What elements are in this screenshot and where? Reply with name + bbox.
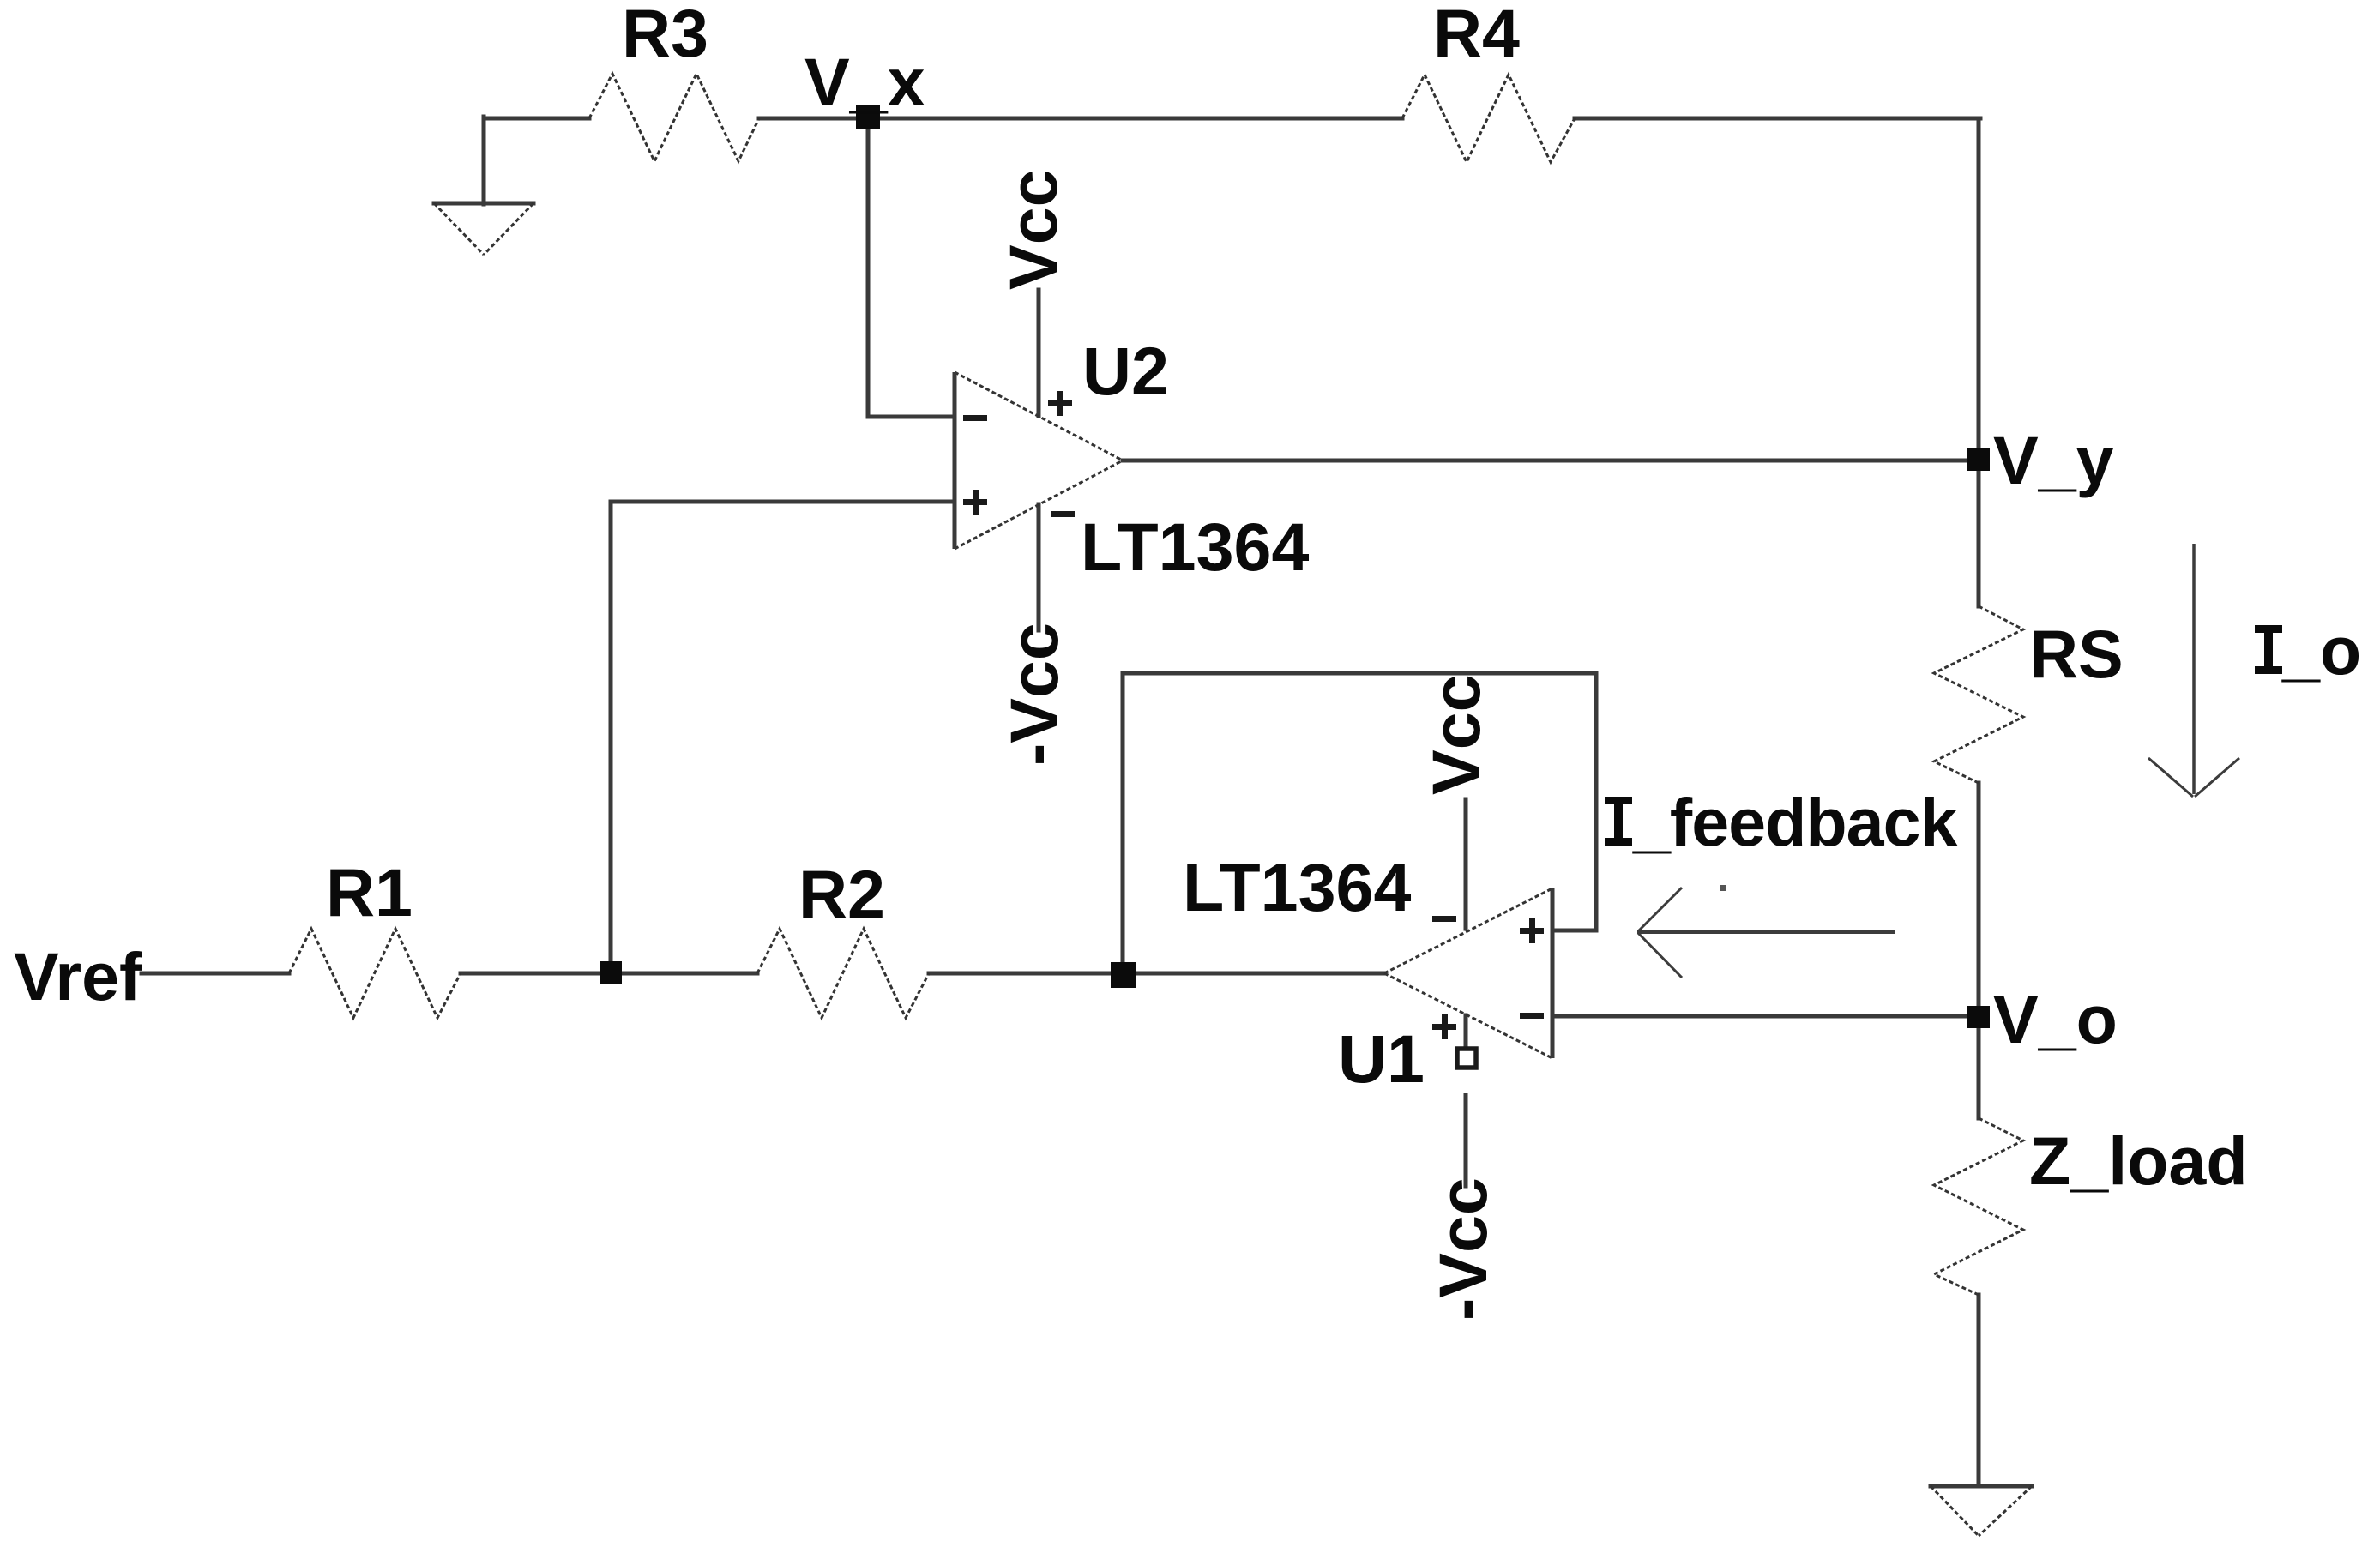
svg-text:V_o: V_o	[1993, 981, 2118, 1057]
svg-text:RS: RS	[2029, 616, 2124, 692]
svg-text:Z_load: Z_load	[2029, 1123, 2248, 1199]
svg-text:-Vcc: -Vcc	[1425, 1177, 1501, 1321]
svg-text:U2: U2	[1082, 333, 1169, 409]
svg-text:R4: R4	[1433, 0, 1520, 71]
svg-text:Vcc: Vcc	[1418, 674, 1494, 795]
svg-text:R3: R3	[622, 0, 708, 71]
svg-text:V_y: V_y	[1993, 422, 2114, 498]
svg-text:LT1364: LT1364	[1081, 509, 1309, 585]
svg-text:-Vcc: -Vcc	[996, 623, 1072, 766]
svg-text:Vref: Vref	[14, 938, 142, 1014]
svg-text:R1: R1	[326, 854, 413, 930]
svg-text:LT1364: LT1364	[1183, 849, 1411, 925]
svg-text:R2: R2	[798, 856, 885, 932]
svg-text:V_x: V_x	[804, 44, 925, 120]
svg-text:_feedback: _feedback	[1632, 784, 1959, 860]
svg-text:_o: _o	[2281, 612, 2361, 689]
svg-text:Vcc: Vcc	[995, 169, 1071, 290]
svg-text:U1: U1	[1338, 1020, 1425, 1097]
